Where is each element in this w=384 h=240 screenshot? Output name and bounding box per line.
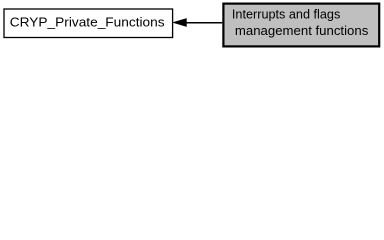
svg-text:management functions: management functions: [235, 23, 369, 38]
svg-text:Interrupts and flags: Interrupts and flags: [232, 7, 341, 22]
svg-text:CRYP_Private_Functions: CRYP_Private_Functions: [10, 14, 165, 29]
